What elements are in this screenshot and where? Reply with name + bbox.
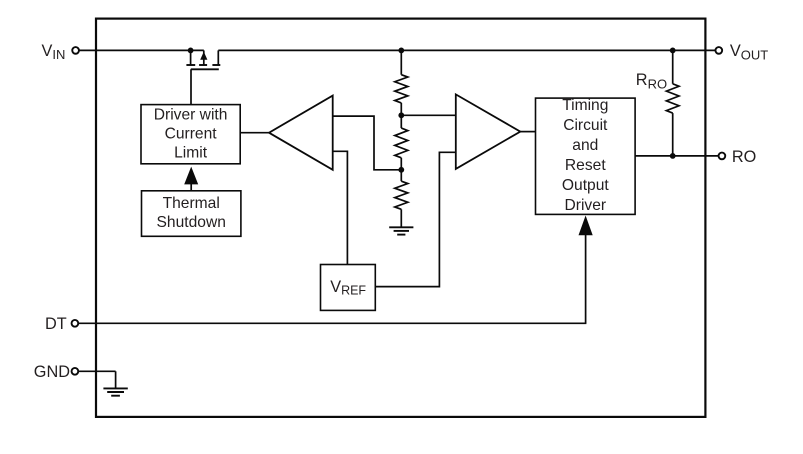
- svg-text:Output: Output: [562, 177, 609, 194]
- svg-text:GND: GND: [34, 363, 70, 381]
- svg-text:Reset: Reset: [565, 157, 606, 174]
- svg-text:and: and: [572, 137, 598, 154]
- svg-text:Limit: Limit: [174, 145, 208, 162]
- svg-text:Driver with: Driver with: [154, 107, 228, 124]
- svg-text:Timing: Timing: [562, 97, 608, 114]
- svg-text:Driver: Driver: [565, 197, 607, 214]
- svg-text:Current: Current: [165, 126, 218, 143]
- svg-text:DT: DT: [45, 315, 67, 333]
- svg-text:RO: RO: [732, 148, 756, 166]
- svg-text:Shutdown: Shutdown: [157, 214, 226, 231]
- svg-text:Thermal: Thermal: [163, 195, 220, 212]
- svg-text:Circuit: Circuit: [563, 117, 608, 134]
